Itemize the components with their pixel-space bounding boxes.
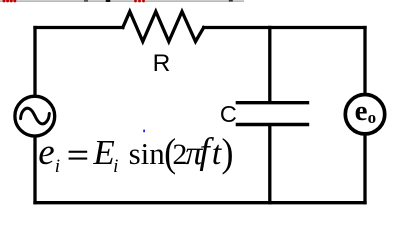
label eo in meter — [355, 95, 377, 127]
svg-text:): ) — [222, 131, 234, 175]
svg-text:C: C — [220, 101, 237, 127]
svg-text:e: e — [355, 95, 368, 127]
cropped descender mark 3 — [229, 0, 233, 2]
AC source circle — [15, 96, 55, 136]
wire bottom: left corner to capacitor node — [35, 201, 270, 204]
capacitor C plate bottom — [236, 123, 310, 126]
svg-text:E: E — [92, 133, 114, 172]
output meter eo circle — [345, 95, 384, 134]
svg-text:e: e — [38, 132, 54, 173]
svg-text:R: R — [153, 50, 171, 77]
resistor R — [123, 12, 204, 42]
wire capacitor branch upper — [268, 28, 271, 102]
svg-text:i: i — [55, 156, 60, 177]
red spellcheck dots left — [3, 0, 17, 2]
wire left vertical: source to bottom corner — [33, 136, 36, 202]
AC source sine wave — [21, 108, 50, 124]
wire top-right: capacitor node to right corner — [270, 26, 365, 29]
svg-text:o: o — [368, 108, 377, 127]
svg-text:i: i — [113, 156, 118, 177]
wire capacitor branch lower — [268, 126, 271, 203]
blue caret dot artifact — [143, 130, 145, 133]
eq equals sign — [69, 151, 88, 153]
wire top-left: node A to resistor — [35, 26, 123, 29]
svg-text:sin: sin — [129, 136, 166, 171]
wire right vertical: output meter to bottom corner — [363, 135, 366, 203]
wire bottom: capacitor node to right corner — [270, 201, 365, 204]
equation e_i = E_i sin(2 pi f t) — [38, 131, 233, 177]
wire left vertical: top corner to source — [33, 28, 36, 97]
capacitor C plate top — [236, 101, 310, 104]
cropped descender mark 1 — [84, 0, 88, 2]
cropped descender mark 2 — [106, 0, 111, 2]
wire top-right: resistor to capacitor node — [204, 26, 270, 29]
wire right vertical: top corner to output meter — [363, 28, 366, 95]
red spellcheck dots middle — [134, 0, 145, 2]
cropped text-line fragment (gray rule) — [0, 0, 244, 1]
